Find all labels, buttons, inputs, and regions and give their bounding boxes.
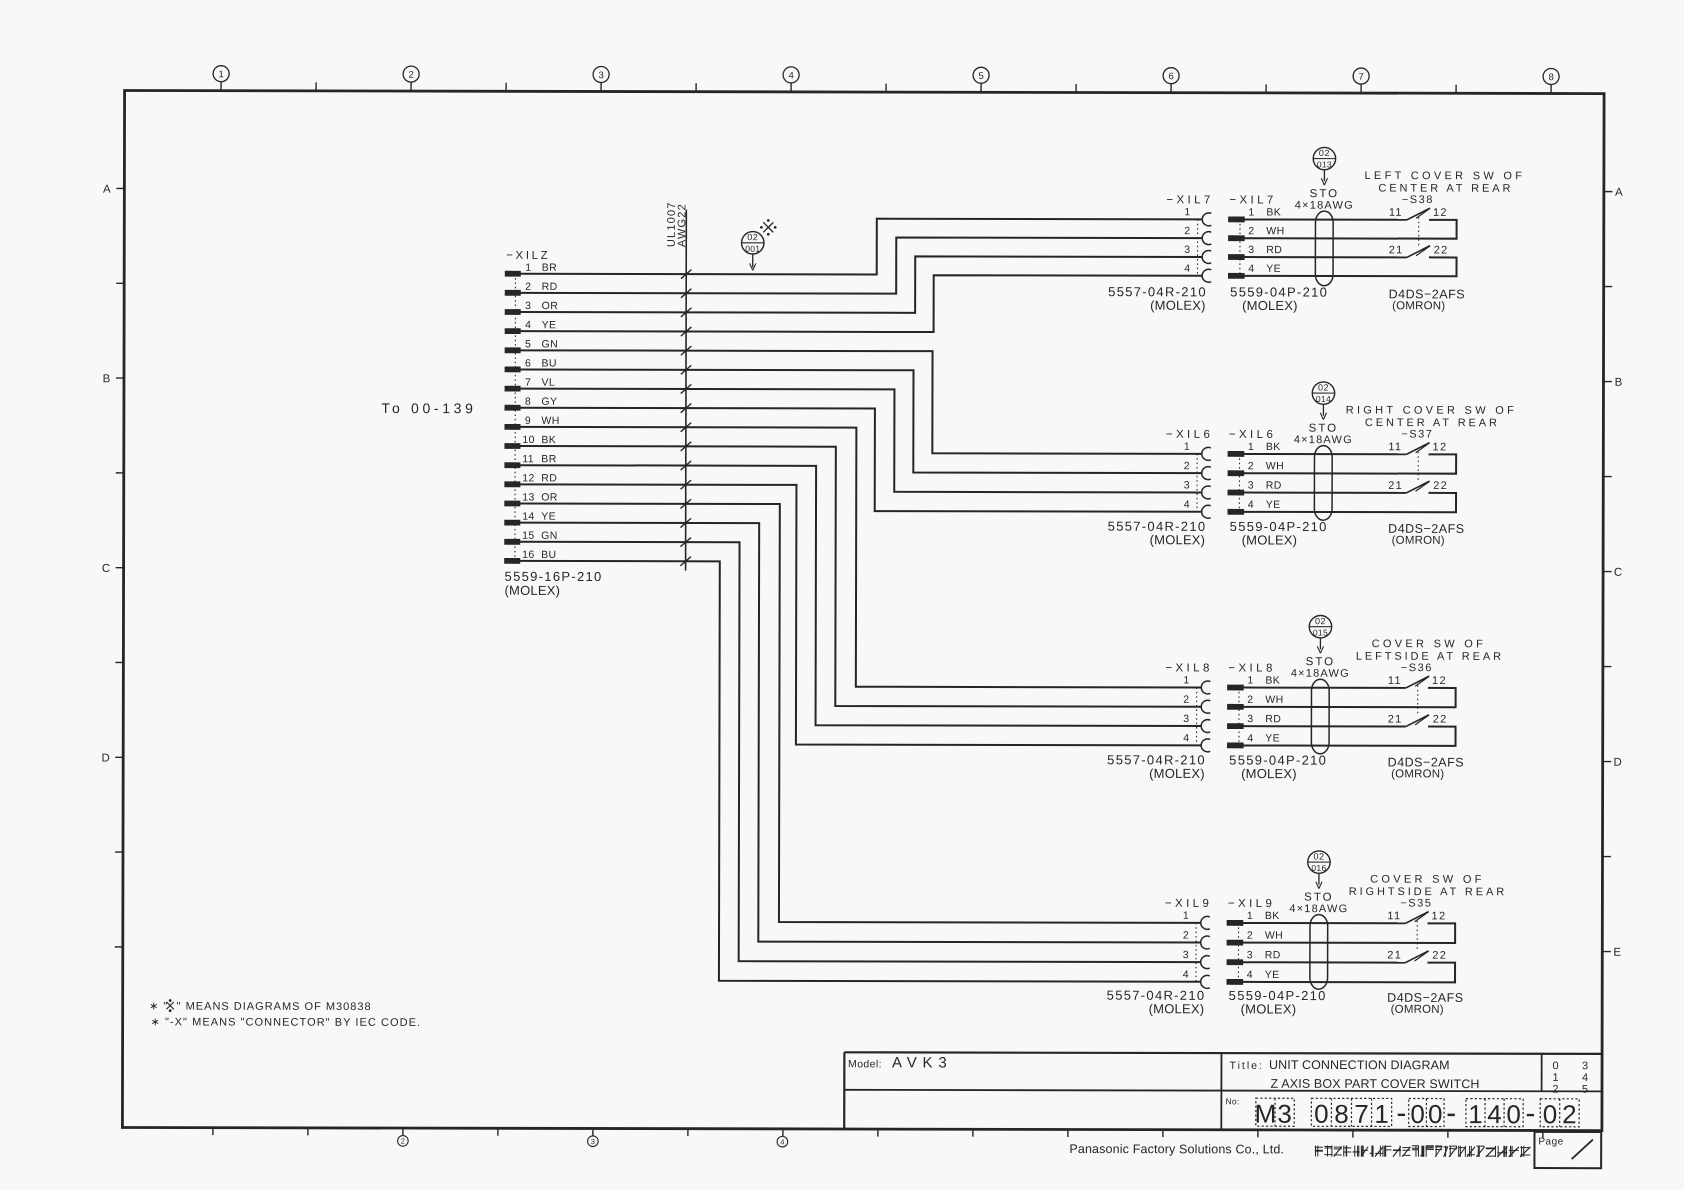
model field: AVK3: [848, 1054, 952, 1071]
svg-text:(MOLEX): (MOLEX): [1150, 298, 1206, 313]
svg-text:CENTER AT REAR: CENTER AT REAR: [1378, 183, 1513, 195]
cable sheath STO 4x18AWG of -S36: [1291, 656, 1350, 754]
wire -XIL7 pin 3 to contact 21: [1244, 256, 1406, 258]
svg-text:5: 5: [525, 338, 531, 350]
cable crossing slashes: [680, 269, 691, 565]
svg-text:11: 11: [1388, 441, 1402, 453]
svg-text:2: 2: [1247, 694, 1253, 706]
svg-text:STO: STO: [1310, 188, 1339, 200]
switch -S36 part D4DS-2AFS (OMRON): [1388, 755, 1464, 780]
svg-text:OR: OR: [542, 300, 559, 312]
svg-text:4: 4: [1582, 1072, 1588, 1084]
connector -XIL8 receptacle body dotted line: [1196, 687, 1198, 745]
wire contact 22 loop to -XIL9 pin 4: [1243, 962, 1455, 982]
svg-text:C: C: [102, 563, 110, 575]
svg-text:9: 9: [525, 415, 531, 427]
svg-text:4×18AWG: 4×18AWG: [1291, 668, 1350, 680]
wire -XILZ pin 4 to -XIL7 pin 4: [520, 274, 1203, 332]
svg-text:22: 22: [1432, 950, 1447, 962]
switch -S38 contact 11-12 blade: [1389, 207, 1448, 220]
wire -XIL8 pin 3 to contact 21: [1243, 725, 1405, 727]
wire -XIL6 pin 3 to contact 21: [1244, 492, 1406, 494]
svg-text:4: 4: [1184, 263, 1190, 275]
svg-text:−S37: −S37: [1401, 428, 1433, 440]
switch -S38 part D4DS-2AFS (OMRON): [1389, 287, 1465, 312]
svg-text:2: 2: [1183, 929, 1189, 941]
svg-text:5: 5: [978, 71, 983, 82]
svg-text:21: 21: [1389, 244, 1404, 256]
connector -XILZ pin 1 (BR): [505, 262, 557, 277]
connector -XIL8 receptacle pin 2 contact: [1183, 694, 1210, 714]
connector -XIL7 plug label: [1229, 194, 1276, 206]
switch -S37 description: [1346, 404, 1517, 429]
svg-text:YE: YE: [1266, 499, 1281, 511]
connector -XIL7 receptacle body dotted line: [1197, 219, 1199, 275]
svg-text:22: 22: [1433, 714, 1448, 726]
wire -XILZ pin 13 to -XIL9 pin 1: [519, 503, 1202, 922]
switch -S37 contact 11-12 blade: [1388, 441, 1447, 454]
connector -XIL6 receptacle pin 1 contact: [1184, 441, 1211, 461]
svg-text:B: B: [1615, 377, 1623, 389]
connector -XIL7 plug pin 3 (RD): [1229, 244, 1283, 260]
reference mark (kome) symbol: [761, 220, 777, 236]
svg-text:5: 5: [1582, 1084, 1588, 1096]
svg-text:−XIL8: −XIL8: [1228, 663, 1275, 675]
wire -XILZ pin 15 to -XIL9 pin 3: [519, 542, 1202, 962]
svg-text:1: 1: [1184, 441, 1190, 453]
switch -S38 label: [1402, 194, 1434, 206]
connector -XILZ pin 3 (OR): [505, 300, 558, 315]
connector -XIL7 plug part 5559-04P-210 (MOLEX): [1230, 284, 1328, 313]
switch -S35 contact 11-12 blade: [1387, 910, 1446, 923]
connector -XIL9 plug label: [1228, 898, 1275, 910]
svg-text:OR: OR: [541, 492, 558, 504]
svg-text:2: 2: [408, 70, 413, 81]
svg-text:RD: RD: [1266, 244, 1282, 256]
svg-text:2: 2: [1184, 460, 1190, 472]
connector -XILZ pin 4 (YE): [505, 319, 556, 333]
wire -XILZ pin 5 to -XIL6 pin 1: [520, 350, 1203, 454]
svg-text:4×18AWG: 4×18AWG: [1289, 903, 1348, 915]
switch -S35 label: [1400, 897, 1432, 909]
svg-text:12: 12: [522, 472, 535, 484]
svg-text:0: 0: [1552, 1060, 1558, 1072]
svg-text:4: 4: [780, 1137, 784, 1146]
wire -XILZ pin 9 to -XIL8 pin 1: [519, 427, 1202, 688]
connector -XIL7 receptacle pin 4 contact: [1184, 263, 1211, 283]
wire -XILZ pin 14 to -XIL9 pin 2: [519, 523, 1202, 943]
svg-text:1: 1: [1247, 675, 1253, 687]
svg-text:LEFTSIDE AT REAR: LEFTSIDE AT REAR: [1356, 651, 1504, 663]
svg-text:1: 1: [1247, 910, 1253, 922]
svg-text:Model:: Model:: [848, 1058, 882, 1070]
svg-text:−S38: −S38: [1402, 194, 1434, 206]
connector -XILZ pin 12 (RD): [505, 472, 557, 486]
svg-text:YE: YE: [542, 319, 557, 331]
wire -XIL7 pin 1 to contact 11: [1244, 218, 1406, 220]
svg-text:2: 2: [1552, 1084, 1558, 1096]
svg-text:BK: BK: [541, 434, 556, 446]
svg-text:1: 1: [1183, 910, 1189, 922]
note: kome mark means diagrams of M30838: [149, 1000, 371, 1013]
svg-text:4: 4: [1487, 1099, 1502, 1129]
switch -S35 part D4DS-2AFS (OMRON): [1387, 991, 1463, 1016]
svg-text:(MOLEX): (MOLEX): [1149, 1001, 1205, 1016]
svg-text:1: 1: [218, 69, 223, 80]
connector -XILZ body dotted line: [514, 274, 517, 561]
svg-text:−XIL6: −XIL6: [1229, 429, 1276, 441]
svg-text:5559-16P-210: 5559-16P-210: [505, 569, 603, 584]
connector -XIL8 receptacle pin 3 contact: [1183, 713, 1210, 733]
svg-text:4: 4: [1247, 732, 1253, 744]
svg-text:(MOLEX): (MOLEX): [505, 583, 561, 598]
connector -XILZ pin 14 (YE): [505, 511, 556, 525]
svg-text:3: 3: [1277, 1099, 1292, 1129]
svg-text:3: 3: [1183, 713, 1189, 725]
connector -XILZ pin 6 (BU): [505, 357, 557, 371]
svg-text:3: 3: [598, 70, 603, 81]
svg-text:4: 4: [788, 70, 793, 81]
svg-text:4: 4: [525, 319, 531, 331]
note: -X means connector by IEC code: [151, 1016, 422, 1029]
svg-text:No:: No:: [1225, 1096, 1239, 1106]
connector -XILZ label: [506, 250, 550, 262]
connector -XILZ part number 5559-16P-210 (MOLEX): [505, 569, 603, 598]
svg-text:Title:: Title:: [1230, 1060, 1264, 1072]
svg-text:2: 2: [1184, 225, 1190, 237]
connector -XIL9 plug pin 1 (BK): [1227, 910, 1280, 926]
reference symbol 02/014: [1312, 382, 1334, 420]
svg-text:4: 4: [1248, 263, 1254, 275]
connector -XIL9 receptacle pin 4 contact: [1183, 969, 1210, 989]
connector -XILZ pin 5 (GN): [505, 338, 558, 353]
connector -XILZ pin 2 (RD): [505, 281, 557, 295]
svg-text:1: 1: [1552, 1072, 1558, 1084]
svg-text:2: 2: [525, 281, 531, 293]
connector -XILZ pin 11 (BR): [505, 453, 557, 468]
svg-text:8: 8: [525, 396, 531, 408]
connector -XIL9 plug body dotted line: [1237, 923, 1239, 982]
wire -XILZ pin 11 to -XIL8 pin 3: [519, 465, 1202, 726]
svg-text:12: 12: [1433, 207, 1448, 219]
svg-text:21: 21: [1388, 480, 1403, 492]
connector -XIL9 receptacle pin 1 contact: [1183, 910, 1210, 930]
connector -XIL6 plug label: [1229, 429, 1276, 441]
svg-text:BK: BK: [1265, 675, 1280, 687]
wire contact 12 loop to -XIL8 pin 2: [1243, 688, 1455, 708]
svg-text:VL: VL: [541, 377, 555, 389]
revision grid 0-5: [1552, 1060, 1588, 1095]
svg-text:(OMRON): (OMRON): [1391, 1004, 1444, 1016]
svg-text:1: 1: [1248, 441, 1254, 453]
svg-text:WH: WH: [541, 415, 559, 427]
svg-text:4: 4: [1184, 499, 1190, 511]
svg-text:21: 21: [1388, 713, 1403, 725]
svg-text:BU: BU: [542, 358, 557, 370]
connector -XIL6 plug pin 2 (WH): [1228, 460, 1284, 476]
svg-text:11: 11: [1387, 910, 1401, 922]
svg-text:WH: WH: [1266, 225, 1284, 237]
switch -S37 part D4DS-2AFS (OMRON): [1388, 522, 1464, 547]
wire -XILZ pin 8 to -XIL6 pin 4: [520, 408, 1203, 512]
svg-text:BK: BK: [1265, 910, 1280, 922]
svg-text:−XIL6: −XIL6: [1166, 429, 1213, 441]
title block frame: [844, 1052, 1602, 1130]
svg-text:12: 12: [1432, 675, 1447, 687]
reference symbol 02/015: [1309, 615, 1331, 653]
svg-text:D: D: [102, 752, 110, 764]
svg-text:3: 3: [525, 300, 531, 312]
svg-text:12: 12: [1432, 910, 1447, 922]
svg-text:Panasonic Factory Solutions Co: Panasonic Factory Solutions Co., Ltd.: [1069, 1142, 1284, 1156]
wire -XILZ pin 16 to -XIL9 pin 4: [519, 561, 1202, 982]
switch -S35 coupling dotted line: [1416, 921, 1418, 950]
svg-text:2: 2: [1248, 225, 1254, 237]
wire contact 12 loop to -XIL6 pin 2: [1244, 454, 1456, 474]
svg-text:YE: YE: [541, 511, 556, 523]
svg-text:15: 15: [522, 530, 535, 542]
connector -XILZ pin 7 (VL): [505, 377, 555, 392]
connector -XIL6 receptacle pin 3 contact: [1184, 479, 1211, 499]
svg-text:22: 22: [1434, 244, 1449, 256]
switch -S36 coupling dotted line: [1417, 685, 1419, 714]
svg-text:−S36: −S36: [1401, 662, 1433, 674]
svg-text:BK: BK: [1266, 206, 1281, 218]
svg-text:YE: YE: [1266, 263, 1281, 275]
connector -XIL7 plug pin 4 (YE): [1228, 263, 1281, 279]
svg-text:3: 3: [591, 1137, 595, 1146]
svg-text:(OMRON): (OMRON): [1392, 535, 1445, 547]
svg-text:(OMRON): (OMRON): [1391, 768, 1444, 780]
connector -XIL7 receptacle pin 3 contact: [1184, 244, 1211, 264]
wire -XILZ pin 1 to -XIL7 pin 1: [520, 218, 1203, 275]
svg-text:14: 14: [522, 511, 535, 523]
svg-text:C: C: [1614, 567, 1622, 579]
svg-text:YE: YE: [1265, 969, 1280, 981]
svg-text:4: 4: [1248, 499, 1254, 511]
svg-text:(MOLEX): (MOLEX): [1241, 1001, 1297, 1016]
svg-text:AVK3: AVK3: [892, 1054, 952, 1071]
connector -XIL6 receptacle part 5557-04R-210 (MOLEX): [1108, 519, 1207, 548]
svg-text:COVER SW OF: COVER SW OF: [1372, 638, 1487, 650]
svg-text:GY: GY: [541, 396, 557, 408]
svg-text:1: 1: [1374, 1099, 1389, 1129]
svg-text:4: 4: [1183, 969, 1189, 981]
svg-text:8: 8: [1334, 1099, 1349, 1129]
svg-text:UNIT CONNECTION DIAGRAM: UNIT CONNECTION DIAGRAM: [1269, 1058, 1450, 1072]
svg-text:RIGHTSIDE AT REAR: RIGHTSIDE AT REAR: [1349, 886, 1507, 898]
connector -XIL6 plug part 5559-04P-210 (MOLEX): [1230, 519, 1328, 548]
switch -S38 contact 21-22 blade: [1389, 244, 1449, 257]
svg-text:3: 3: [1184, 479, 1190, 491]
wire -XILZ pin 7 to -XIL6 pin 3: [520, 389, 1203, 493]
svg-text:013: 013: [1317, 159, 1332, 169]
title field: UNIT CONNECTION DIAGRAM / Z AXIS BOX PART COVER SWITCH: [1229, 1058, 1479, 1091]
connector -XILZ pin 10 (BK): [505, 434, 556, 448]
connector -XIL9 plug pin 2 (WH): [1227, 930, 1283, 946]
svg-text:RIGHT COVER SW OF: RIGHT COVER SW OF: [1346, 404, 1517, 416]
connector -XIL8 plug part 5559-04P-210 (MOLEX): [1229, 753, 1327, 782]
connector -XIL6 receptacle body dotted line: [1196, 454, 1198, 512]
switch -S37 label: [1401, 428, 1433, 440]
switch -S35 description: [1349, 873, 1507, 898]
svg-text:WH: WH: [1265, 930, 1283, 942]
connector -XILZ pin 8 (GY): [505, 396, 557, 410]
node To 00-139: [381, 400, 476, 416]
svg-text:STO: STO: [1309, 423, 1338, 435]
svg-text:∗ ": ∗ ": [149, 1001, 168, 1013]
svg-text:RD: RD: [1266, 480, 1282, 492]
connector -XIL6 receptacle pin 4 contact: [1184, 499, 1211, 519]
wire contact 22 loop to -XIL6 pin 4: [1244, 493, 1456, 513]
connector -XILZ pin 9 (WH): [505, 415, 560, 430]
cable UL1007 AWG22 vertical line: [685, 210, 688, 571]
svg-text:11: 11: [1388, 675, 1402, 687]
svg-text:BU: BU: [541, 549, 556, 561]
svg-text:1: 1: [1468, 1099, 1483, 1129]
svg-text:(MOLEX): (MOLEX): [1149, 766, 1205, 781]
svg-text:GN: GN: [541, 530, 558, 542]
svg-text:16: 16: [522, 549, 535, 561]
svg-text:STO: STO: [1304, 892, 1333, 904]
svg-text:13: 13: [522, 491, 535, 503]
svg-text:1: 1: [525, 262, 531, 274]
svg-text:LEFT COVER SW OF: LEFT COVER SW OF: [1365, 170, 1526, 182]
wire contact 12 loop to -XIL7 pin 2: [1244, 219, 1456, 238]
svg-text:∗ "-X" MEANS "CONNECTOR" BY IE: ∗ "-X" MEANS "CONNECTOR" BY IEC CODE.: [151, 1016, 422, 1029]
svg-text:(MOLEX): (MOLEX): [1242, 298, 1298, 313]
switch -S38 coupling dotted line: [1418, 217, 1420, 246]
cable sheath STO 4x18AWG of -S35: [1289, 892, 1348, 990]
connector -XIL7 plug pin 1 (BK): [1229, 206, 1282, 222]
wire -XIL8 pin 1 to contact 11: [1243, 687, 1405, 689]
connector -XIL8 receptacle pin 1 contact: [1183, 674, 1210, 694]
svg-text:−XIL8: −XIL8: [1165, 662, 1212, 674]
switch -S36 label: [1401, 662, 1433, 674]
svg-text:3: 3: [1183, 949, 1189, 961]
svg-text:014: 014: [1316, 394, 1331, 404]
connector -XIL7 receptacle label: [1166, 194, 1213, 206]
connector -XIL9 plug pin 4 (YE): [1227, 969, 1280, 985]
connector -XIL8 receptacle pin 4 contact: [1183, 732, 1210, 752]
svg-text:−S35: −S35: [1400, 897, 1432, 909]
switch -S36 contact 11-12 blade: [1388, 675, 1447, 688]
svg-text:CENTER AT REAR: CENTER AT REAR: [1365, 417, 1500, 429]
svg-text:10: 10: [522, 434, 535, 446]
svg-text:WH: WH: [1265, 694, 1283, 706]
svg-text:015: 015: [1313, 627, 1328, 637]
svg-text:11: 11: [522, 453, 534, 465]
svg-text:1: 1: [1183, 674, 1189, 686]
svg-text:3: 3: [1248, 244, 1254, 256]
reference symbol 02/013: [1313, 147, 1335, 185]
svg-text:−XIL7: −XIL7: [1229, 194, 1276, 206]
svg-text:7: 7: [1358, 72, 1363, 83]
svg-text:21: 21: [1387, 950, 1402, 962]
svg-text:BR: BR: [541, 453, 556, 465]
svg-text:GN: GN: [542, 338, 559, 350]
svg-text:1: 1: [1248, 206, 1254, 218]
connector -XIL6 receptacle label: [1166, 429, 1213, 441]
svg-text:4×18AWG: 4×18AWG: [1295, 200, 1354, 212]
svg-text:STO: STO: [1306, 656, 1335, 668]
wire -XIL9 pin 1 to contact 11: [1243, 922, 1405, 924]
wire -XILZ pin 2 to -XIL7 pin 2: [520, 237, 1203, 295]
svg-text:12: 12: [1433, 441, 1448, 453]
svg-text:YE: YE: [1265, 732, 1280, 744]
connector -XIL6 plug body dotted line: [1238, 454, 1240, 512]
svg-text:−XILZ: −XILZ: [506, 250, 550, 262]
svg-text:3: 3: [1184, 244, 1190, 256]
connector -XIL6 receptacle pin 2 contact: [1184, 460, 1211, 480]
connector -XILZ pin 15 (GN): [505, 530, 558, 545]
svg-text:0: 0: [1410, 1099, 1425, 1129]
connector -XILZ pin 16 (BU): [505, 549, 557, 564]
connector -XIL9 receptacle body dotted line: [1195, 923, 1197, 982]
connector -XIL9 receptacle part 5557-04R-210 (MOLEX): [1107, 988, 1206, 1017]
svg-text:−XIL7: −XIL7: [1166, 194, 1213, 206]
cable sheath STO 4x18AWG of -S37: [1294, 423, 1353, 521]
svg-text:7: 7: [525, 377, 531, 389]
svg-text:02: 02: [1319, 148, 1330, 158]
connector -XIL6 plug pin 3 (RD): [1228, 480, 1282, 496]
svg-text:M: M: [1255, 1099, 1277, 1129]
svg-text:A: A: [1615, 187, 1623, 199]
svg-text:COVER SW OF: COVER SW OF: [1370, 874, 1485, 886]
cable label UL1007 AWG22: [666, 201, 689, 247]
wire -XIL9 pin 3 to contact 21: [1243, 961, 1405, 963]
reference symbol 02/001: [742, 232, 764, 271]
wire -XILZ pin 6 to -XIL6 pin 2: [520, 369, 1203, 473]
svg-text:Z AXIS BOX PART COVER SWITCH: Z AXIS BOX PART COVER SWITCH: [1270, 1077, 1479, 1091]
svg-text:02: 02: [1313, 851, 1324, 861]
connector -XIL7 receptacle pin 1 contact: [1184, 206, 1211, 226]
wire contact 22 loop to -XIL7 pin 4: [1244, 257, 1456, 276]
svg-text:6: 6: [525, 357, 531, 369]
svg-text:(MOLEX): (MOLEX): [1241, 766, 1297, 781]
svg-text:RD: RD: [542, 281, 558, 293]
connector -XIL8 receptacle label: [1165, 662, 1212, 674]
svg-text:016: 016: [1311, 863, 1326, 873]
wire -XILZ pin 3 to -XIL7 pin 3: [520, 256, 1203, 314]
svg-text:RD: RD: [1265, 949, 1281, 961]
connector -XIL8 plug pin 2 (WH): [1228, 694, 1284, 710]
reference symbol 02/016: [1308, 851, 1330, 889]
svg-text:11: 11: [1389, 207, 1403, 219]
svg-text:WH: WH: [1266, 460, 1284, 472]
switch -S38 description: [1364, 170, 1525, 195]
wire contact 12 loop to -XIL9 pin 2: [1243, 923, 1455, 943]
svg-text:0: 0: [1506, 1099, 1521, 1129]
svg-text:02: 02: [747, 232, 758, 242]
svg-text:3: 3: [1582, 1060, 1588, 1072]
svg-text:0: 0: [1543, 1099, 1558, 1129]
switch -S36 description: [1356, 638, 1504, 663]
svg-text:7: 7: [1354, 1099, 1369, 1129]
connector -XILZ pin 13 (OR): [505, 491, 558, 506]
cable sheath STO 4x18AWG of -S38: [1295, 188, 1354, 286]
svg-text:001: 001: [745, 244, 760, 254]
connector -XIL9 receptacle pin 2 contact: [1183, 929, 1210, 949]
svg-text:E: E: [1613, 947, 1621, 959]
svg-text:02: 02: [1315, 616, 1326, 626]
switch -S35 contact 21-22 blade: [1387, 950, 1447, 963]
svg-text:−XIL9: −XIL9: [1165, 898, 1212, 910]
svg-text:02: 02: [1318, 382, 1329, 392]
connector -XIL6 plug pin 4 (YE): [1228, 499, 1281, 515]
svg-text:(MOLEX): (MOLEX): [1150, 532, 1206, 547]
svg-text:0: 0: [1314, 1099, 1329, 1129]
